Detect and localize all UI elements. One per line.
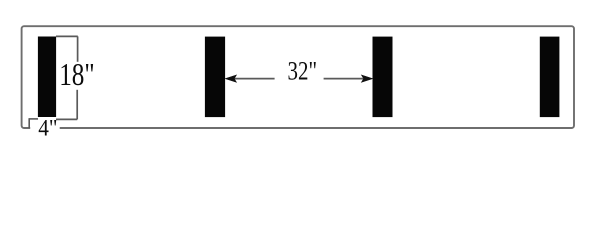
- 32-inch dimension line right segment: [324, 78, 365, 80]
- 32-inch arrowhead right: [362, 75, 373, 82]
- svg-text:18": 18": [59, 57, 94, 92]
- 32-inch dimension line left segment: [233, 78, 275, 80]
- svg-text:32": 32": [288, 55, 318, 85]
- stud 1: [38, 37, 56, 118]
- gap in bottom border behind 4" label: [30, 122, 60, 133]
- 18-inch bracket bottom line: [56, 118, 77, 120]
- 18-inch bracket top line: [56, 35, 78, 37]
- 4-inch callout vertical line: [28, 118, 30, 128]
- 4-inch callout horizontal tick: [29, 118, 38, 120]
- stud 3: [373, 37, 393, 118]
- svg-text:4": 4": [38, 115, 57, 140]
- outer board rectangle: [22, 26, 574, 128]
- 18-inch bracket vertical lower: [76, 90, 78, 120]
- 32-inch arrowhead left: [225, 75, 236, 82]
- stud 2: [205, 37, 225, 118]
- 18-inch bracket vertical upper: [77, 36, 79, 61]
- stud 4: [540, 37, 560, 118]
